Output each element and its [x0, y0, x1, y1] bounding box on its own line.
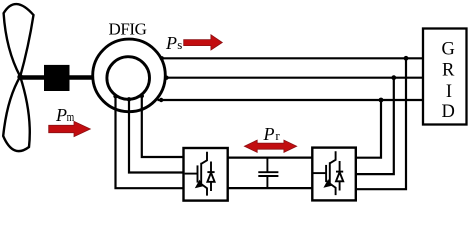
GRID box	[423, 29, 467, 125]
DFIG rotor inner circle	[107, 57, 150, 100]
DFIG stator outer circle	[93, 39, 166, 112]
gearbox	[44, 65, 70, 91]
converter box U2 grid-side	[312, 148, 356, 201]
shaft	[20, 75, 92, 80]
svg-text:DFIG: DFIG	[108, 19, 146, 38]
stator wire B	[164, 76, 423, 80]
svg-text:I: I	[446, 82, 452, 102]
svg-text:D: D	[442, 102, 455, 122]
grid tap wire 1	[356, 56, 409, 189]
wind turbine blade bottom	[3, 77, 30, 152]
wind turbine blade top	[4, 4, 34, 76]
label GRID	[442, 39, 456, 122]
stator wire C	[158, 98, 424, 102]
IGBT Q1 with diode	[185, 152, 215, 196]
capacitor C	[258, 158, 278, 189]
IGBT Q2 with diode	[313, 151, 343, 195]
grid tap wire 3	[356, 98, 384, 158]
svg-text:G: G	[442, 39, 455, 59]
rotor wire 2	[127, 97, 184, 172]
rotor wire 3	[113, 94, 183, 188]
converter box U1 rotor-side	[184, 148, 228, 201]
arrow Pm	[49, 121, 91, 136]
hub	[17, 74, 23, 80]
DC link bottom wire	[228, 187, 313, 189]
rotor wire 1	[140, 94, 184, 157]
arrow Pr double-headed	[244, 140, 296, 152]
svg-text:R: R	[442, 60, 455, 80]
DC link top wire	[228, 157, 313, 159]
stator wire A	[160, 56, 423, 60]
arrow Ps	[184, 35, 223, 50]
grid tap wire 2	[356, 75, 396, 174]
